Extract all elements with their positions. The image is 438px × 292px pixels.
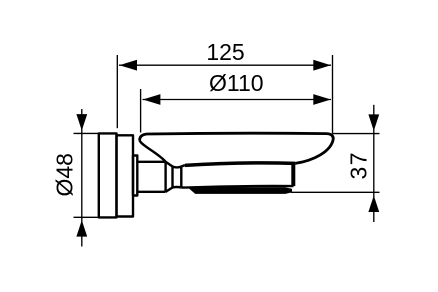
arrow 48 top bbox=[76, 114, 87, 131]
arrow 125 left bbox=[119, 60, 137, 71]
holder ring bottom edge bbox=[185, 186, 294, 188]
dim 37 ext top bbox=[333, 133, 380, 135]
collar bbox=[133, 156, 137, 196]
dim 48 ext bottom bbox=[74, 216, 99, 218]
svg-text:Ø48: Ø48 bbox=[52, 153, 78, 196]
dim 110 line bbox=[143, 99, 332, 101]
arrow 37 bottom bbox=[368, 196, 379, 213]
svg-text:125: 125 bbox=[206, 39, 244, 65]
dim 110 ext left bbox=[140, 89, 142, 133]
dim 125 ext right bbox=[332, 55, 334, 134]
stem bbox=[137, 162, 165, 192]
taper bbox=[166, 162, 173, 192]
arrow 37 top bbox=[368, 114, 379, 130]
dim 125 ext left bbox=[116, 55, 118, 128]
dim 48 ext top bbox=[74, 132, 99, 134]
arrow 110 right bbox=[313, 94, 331, 105]
svg-text:37: 37 bbox=[346, 151, 372, 180]
wall plate bbox=[99, 133, 117, 217]
flare bbox=[181, 165, 185, 188]
dish bottom band bbox=[190, 188, 292, 193]
holder ring right edge bbox=[291, 163, 295, 186]
dim 125 line bbox=[119, 64, 331, 66]
dim 48 line bbox=[81, 109, 83, 247]
flange bbox=[117, 135, 134, 216]
dim 37 ext bottom bbox=[291, 191, 380, 193]
svg-text:Ø110: Ø110 bbox=[209, 70, 264, 96]
arrow 48 bottom bbox=[76, 220, 87, 237]
neck bbox=[173, 167, 182, 188]
bowl outline bbox=[140, 133, 334, 163]
bowl underside left curve bbox=[140, 141, 166, 162]
arrow 110 left bbox=[143, 94, 161, 105]
dim 37 line bbox=[373, 105, 375, 222]
arrow 125 right bbox=[313, 60, 331, 71]
holder ring top edge bbox=[185, 163, 295, 166]
